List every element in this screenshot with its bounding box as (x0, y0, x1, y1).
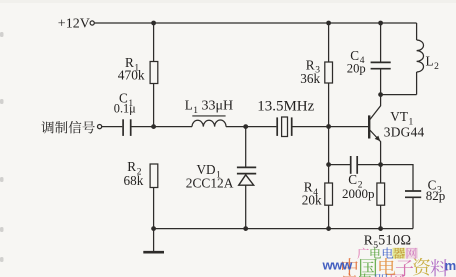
junction dot top rail / R3 (326, 21, 331, 26)
wire node E to C3 branch (381, 165, 413, 191)
svg-text:0.1μ: 0.1μ (114, 101, 136, 115)
capacitor C2 2000p (342, 156, 375, 201)
capacitor C3 82p (405, 177, 445, 203)
inductor L2 (417, 23, 440, 95)
svg-text:68k: 68k (124, 173, 144, 188)
inductor L1 33uH (185, 98, 233, 127)
wire bottom rail (154, 228, 413, 230)
wire node D to C2 (329, 164, 350, 166)
svg-text:www: www (322, 258, 354, 273)
wire ground stub (153, 229, 155, 252)
wire top +12V rail (95, 22, 417, 24)
junction node A (C1/R1/R2/L1) (151, 124, 156, 129)
svg-text:82p: 82p (426, 188, 446, 203)
wire crystal to base (node C) (292, 126, 368, 128)
wire C4 branch vertical bottom (380, 69, 382, 95)
svg-text:20k: 20k (302, 193, 322, 208)
svg-text:m: m (445, 258, 456, 273)
resistor R5 510ohm (364, 165, 412, 251)
watermark small site-name row (357, 247, 418, 258)
svg-text:2000p: 2000p (342, 186, 375, 201)
wire C1 to node A (132, 126, 154, 128)
resistor R1 470k (118, 55, 158, 84)
svg-text:20p: 20p (347, 62, 366, 76)
wire node A to L1 (154, 126, 192, 128)
svg-text:+12V: +12V (58, 17, 90, 32)
resistor R3 36k (300, 57, 332, 86)
junction dot bottom rail / VD1 (243, 226, 248, 231)
svg-text:36k: 36k (300, 71, 320, 86)
junction dot bottom rail / R5 (378, 226, 383, 231)
ground symbol (143, 251, 164, 254)
junction node E (emitter/C2/C3/R5) (378, 162, 383, 167)
svg-text:2CC12A: 2CC12A (186, 176, 234, 191)
watermark big colour characters row (342, 258, 449, 277)
junction node B (L1/XT/VD1) (243, 124, 248, 129)
watermark lower clipped characters row (341, 274, 404, 277)
junction dot top rail / R1 (151, 21, 156, 26)
svg-text:470k: 470k (118, 67, 145, 82)
junction dot node D (C2 left) (326, 162, 331, 167)
capacitor C1 0.1u (114, 91, 136, 136)
wire R1 branch vertical (153, 23, 155, 127)
svg-text:13.5MHz: 13.5MHz (257, 99, 314, 115)
junction dot collector / C4 / L2 (378, 92, 383, 97)
wire R2 bottom to ground rail (153, 188, 155, 229)
input terminal 调制信号 (41, 121, 101, 134)
wire C3 to bottom rail corner (412, 198, 414, 229)
paper mottle (0, 0, 456, 3)
varactor diode VD1 2CC12A (186, 127, 256, 229)
wire input to C1 (102, 126, 123, 128)
wire L2 bottom to collector node (381, 94, 417, 96)
wire R3/R4 divider vertical (328, 23, 330, 229)
junction dot bottom rail / R4 (326, 226, 331, 231)
junction node C (R3/R4/base) (326, 124, 331, 129)
junction dot top rail / C4 (378, 21, 383, 26)
svg-text:3DG44: 3DG44 (384, 125, 425, 140)
crystal 13.5MHz (257, 99, 314, 137)
wire L1 to node B (226, 126, 276, 128)
capacitor C4 20p (347, 48, 391, 76)
resistor R4 20k (302, 180, 333, 208)
scan edge marks (0, 32, 4, 262)
junction dot bottom rail left (151, 226, 156, 231)
wire C4 branch vertical top (380, 23, 382, 62)
resistor R2 68k (124, 159, 158, 188)
transistor VT1 3DG44 (369, 95, 424, 165)
power terminal +12V (58, 17, 94, 32)
wire C2 to emitter node E (358, 164, 381, 166)
